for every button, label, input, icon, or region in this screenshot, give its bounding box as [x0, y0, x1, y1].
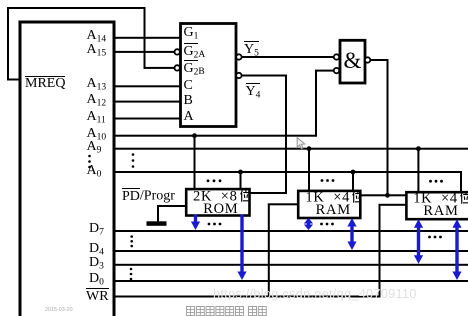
label A11	[87, 110, 106, 124]
horizontal ellipsis dots	[207, 179, 210, 182]
label D3	[89, 256, 104, 270]
label D0	[89, 272, 104, 286]
junction A9-RAM2	[416, 146, 421, 151]
wire A12 to B	[114, 101, 181, 103]
junction A0-ROM	[238, 170, 243, 175]
junction AND-CS rail	[385, 193, 390, 198]
bubble AND input 2	[334, 68, 339, 73]
data arrow RAM2 D3	[414, 219, 423, 264]
label Y5	[244, 41, 259, 57]
junction A0-RAM1	[351, 170, 356, 175]
data arrow ROM D7	[191, 215, 200, 231]
label WR	[86, 288, 109, 304]
label Y4	[246, 83, 261, 99]
pin G2B	[184, 60, 205, 76]
wire MREQ loop: CPU left pin up over to decoder G2B	[8, 79, 20, 81]
wire D4 bus row	[114, 250, 468, 252]
wire Y4 down to ROM CS pin	[242, 75, 287, 77]
wire A9 down to RAM1	[308, 149, 310, 191]
wire A10 down to ROM	[194, 136, 196, 189]
bubble Y5 output	[236, 54, 241, 59]
bubble G2A input	[175, 49, 180, 54]
chip RAM1 label	[302, 191, 364, 216]
wire AND output down to RAM CS rail	[370, 59, 388, 61]
data arrow ROM D0	[237, 215, 246, 281]
junction A9-RAM1	[307, 146, 312, 151]
AND gate U2 box	[340, 40, 365, 83]
op AND symbol	[344, 49, 362, 72]
CPU box (left, clipped at bottom)	[20, 22, 114, 316]
label A9	[87, 140, 102, 154]
label PD/Progr	[122, 188, 175, 204]
decoder 74LS138 box U1	[181, 24, 237, 127]
pin C	[184, 79, 193, 93]
watermark url	[213, 286, 417, 301]
pin B	[184, 94, 193, 108]
mouse cursor	[297, 138, 305, 149]
data arrow RAM1 D4	[347, 218, 356, 250]
wire A13 to C	[114, 85, 181, 87]
wire CS rail RAM1 to RAM2	[360, 194, 406, 196]
wire A11 to A	[114, 118, 181, 120]
pin G1	[184, 26, 199, 40]
chip RAM2 label	[410, 192, 468, 217]
ROM chip box	[186, 189, 249, 215]
vertical ellipsis dots	[88, 155, 91, 158]
wire A9 bus row	[114, 148, 468, 150]
pin A	[184, 110, 194, 124]
wire A10 bus row, rises to AND gate input	[114, 135, 316, 137]
wire A0 bus row, drops into RAM2	[114, 171, 461, 173]
RAM1 chip box	[298, 191, 360, 218]
bubble AND input 1	[334, 54, 339, 59]
data arrow RAM2 D0	[452, 219, 461, 280]
label A14	[87, 29, 107, 43]
watermark chinese	[186, 306, 276, 316]
RAM2 chip box (clipped right)	[406, 192, 468, 219]
label D4	[89, 242, 104, 256]
wire ROM PD pin to ground	[157, 205, 186, 207]
pin G2A	[184, 43, 206, 59]
wire A15 to G2A	[114, 51, 175, 53]
chip ROM label	[189, 190, 252, 215]
label A0	[87, 164, 102, 178]
wire D3 bus row	[114, 264, 468, 266]
label A15	[87, 43, 107, 57]
junction A10-ROM	[192, 133, 197, 138]
wire A9 down to RAM2	[417, 149, 419, 193]
bubble AND output	[365, 57, 370, 62]
wire D7 bus row	[114, 230, 468, 232]
wire Y5 to AND input	[242, 56, 334, 58]
ground bar	[147, 221, 167, 226]
wire WR row, rises to RAM2 WE pin	[114, 296, 380, 298]
bubble G2B input	[175, 65, 180, 70]
wire A0 down to ROM	[240, 172, 242, 189]
wire D0 bus row	[114, 280, 468, 282]
bubble Y4 output	[236, 73, 241, 78]
label A10	[87, 127, 107, 141]
wire A0 down to RAM1	[352, 172, 354, 191]
watermark date	[45, 307, 73, 313]
data arrow RAM1 D7	[304, 218, 313, 230]
wire RAM1 WE pin down to WR	[268, 203, 298, 205]
label MREQ	[25, 76, 65, 92]
label A12	[87, 93, 107, 107]
label A13	[87, 77, 107, 91]
wire A14 to G1	[114, 37, 181, 39]
label D7	[89, 222, 104, 236]
